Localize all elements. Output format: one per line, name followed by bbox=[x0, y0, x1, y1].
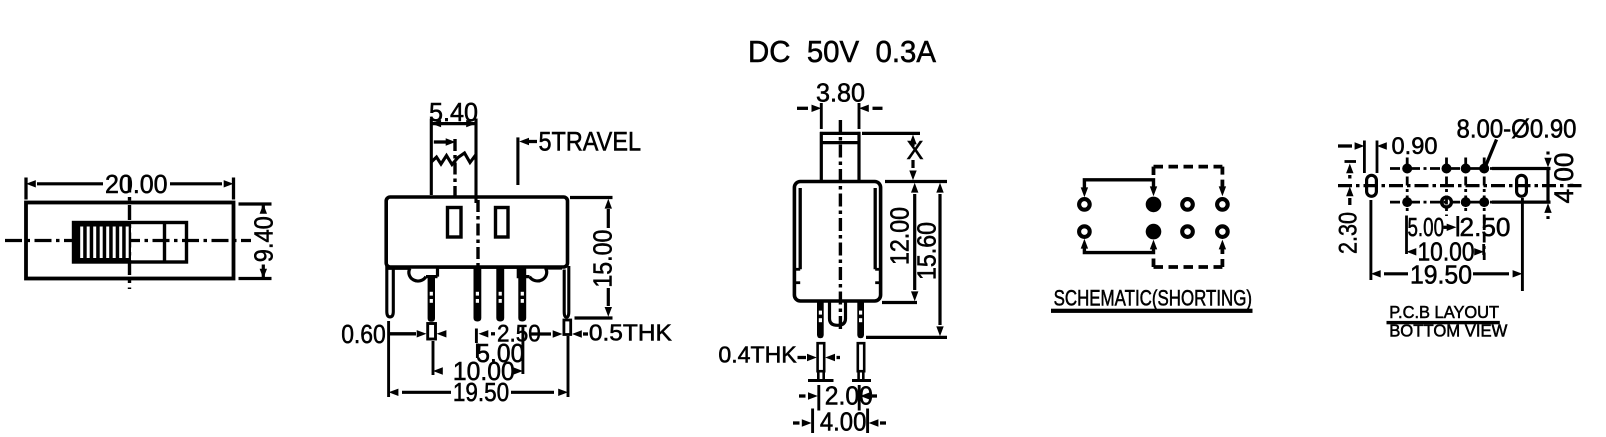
svg-text:12.00: 12.00 bbox=[887, 207, 915, 265]
svg-text:DC 50V 0.3A: DC 50V 0.3A bbox=[748, 35, 937, 69]
svg-text:20.00: 20.00 bbox=[105, 171, 168, 199]
svg-text:2.30: 2.30 bbox=[1335, 212, 1363, 254]
svg-text:0.5THK: 0.5THK bbox=[589, 319, 673, 345]
svg-text:0.90: 0.90 bbox=[1392, 133, 1438, 160]
svg-text:0.4THK: 0.4THK bbox=[718, 342, 797, 368]
svg-text:8.00-Ø0.90: 8.00-Ø0.90 bbox=[1457, 115, 1577, 143]
svg-text:2.00: 2.00 bbox=[825, 383, 873, 411]
svg-text:X: X bbox=[907, 137, 924, 165]
svg-text:0.60: 0.60 bbox=[341, 321, 386, 349]
svg-text:5TRAVEL: 5TRAVEL bbox=[539, 127, 642, 157]
svg-text:15.60: 15.60 bbox=[914, 222, 942, 280]
svg-text:SCHEMATIC(SHORTING): SCHEMATIC(SHORTING) bbox=[1054, 286, 1252, 311]
svg-text:15.00: 15.00 bbox=[590, 230, 618, 288]
svg-text:4.00: 4.00 bbox=[820, 409, 867, 437]
svg-text:4.00: 4.00 bbox=[1549, 153, 1579, 204]
svg-text:19.50: 19.50 bbox=[1410, 260, 1472, 290]
svg-text:P.C.B LAYOUT: P.C.B LAYOUT bbox=[1389, 302, 1499, 322]
svg-text:19.50: 19.50 bbox=[453, 379, 509, 407]
svg-text:9.40: 9.40 bbox=[251, 216, 279, 262]
svg-text:BOTTOM VIEW: BOTTOM VIEW bbox=[1389, 321, 1508, 341]
